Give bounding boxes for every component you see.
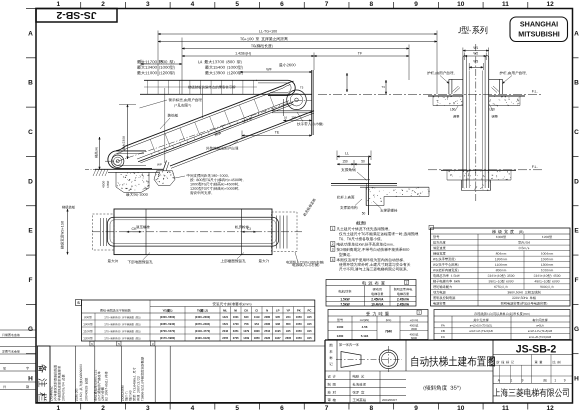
svg-text:1: 1 bbox=[511, 379, 513, 383]
svg-text:8: 8 bbox=[369, 1, 373, 8]
svg-text:915: 915 bbox=[307, 336, 312, 340]
svg-text:7840: 7840 bbox=[385, 330, 392, 334]
svg-text:LP: LP bbox=[276, 308, 280, 312]
svg-text:2.45kVA: 2.45kVA bbox=[397, 298, 410, 302]
pit depth tiny dims bbox=[102, 181, 104, 188]
svg-text:(2400~2300): (2400~2300) bbox=[195, 315, 210, 319]
svg-text:FB: FB bbox=[441, 329, 445, 333]
svg-text:5: 5 bbox=[235, 405, 239, 411]
guard label right bbox=[499, 71, 502, 75]
plan width dim bbox=[67, 209, 69, 255]
svg-text:11: 11 bbox=[502, 405, 509, 411]
svg-text:(2170~5980): (2170~5980) bbox=[160, 336, 175, 340]
upper deck band top line bbox=[144, 79, 257, 81]
svg-text:SHANGHAI: SHANGHAI bbox=[520, 20, 558, 29]
notes strip top border bbox=[36, 345, 325, 347]
xsec rail top caps bbox=[463, 56, 467, 58]
upper slab left bbox=[428, 95, 463, 97]
svg-text:(2420~6120): (2420~6120) bbox=[195, 336, 210, 340]
dim line LL-TG+100 bbox=[158, 33, 437, 35]
svg-text:4: 4 bbox=[191, 1, 195, 8]
lower foundation concrete bbox=[116, 172, 149, 192]
beam concrete section bbox=[360, 186, 429, 188]
upper newel wheel bbox=[287, 90, 307, 110]
revision strip 2 text bbox=[75, 389, 78, 401]
svg-text:ML: ML bbox=[223, 308, 227, 312]
svg-text:12: 12 bbox=[547, 1, 555, 8]
notes line 6 bbox=[339, 253, 342, 256]
upper handrail loop bbox=[256, 80, 295, 95]
svg-text:1050: 1050 bbox=[296, 315, 302, 319]
notes line 2 bbox=[339, 232, 343, 235]
rail surface label bbox=[337, 196, 340, 199]
svg-text:a=LP-1-P+(T3+5)/LB: a=LP-1-P+(T3+5)/LB bbox=[528, 329, 552, 333]
beam vertical bbox=[368, 157, 370, 215]
hoisting length table bbox=[434, 310, 570, 340]
svg-text:C: C bbox=[28, 129, 33, 136]
plan right dashed opening bbox=[272, 212, 298, 252]
projection symbol trapezoid bbox=[341, 352, 361, 368]
projection line lower working point bbox=[164, 88, 166, 163]
svg-text:WP: WP bbox=[157, 163, 162, 167]
dim line 1.428xH bbox=[182, 55, 314, 57]
svg-text:(2418~4770): (2418~4770) bbox=[195, 329, 210, 333]
dim witness line x182 bbox=[181, 38, 183, 95]
svg-text:1279: 1279 bbox=[243, 329, 249, 333]
svg-text:2280: 2280 bbox=[264, 315, 270, 319]
step label on incline bbox=[214, 131, 221, 136]
svg-text:H: H bbox=[574, 376, 579, 383]
svg-text:D: D bbox=[574, 178, 579, 185]
svg-text:1947: 1947 bbox=[275, 336, 281, 340]
outer cladding label bbox=[206, 147, 210, 150]
guard braces bbox=[453, 86, 459, 92]
installation dimensions table marker S bbox=[76, 300, 82, 306]
installation dimensions table bbox=[82, 300, 315, 341]
svg-text:9: 9 bbox=[414, 405, 418, 411]
svg-text:1: 1 bbox=[57, 1, 61, 8]
svg-text:2.45kVA: 2.45kVA bbox=[371, 298, 384, 302]
svg-text:H: H bbox=[28, 376, 33, 383]
svg-text:LL: LL bbox=[345, 152, 349, 156]
svg-text:1: 1 bbox=[554, 379, 556, 383]
plan opening edge lines bbox=[145, 209, 147, 255]
lower pit floor bbox=[108, 171, 160, 173]
revision strip 4 text bbox=[121, 386, 123, 401]
svg-text:1050: 1050 bbox=[296, 322, 302, 326]
svg-text:3: 3 bbox=[332, 247, 334, 251]
svg-text:F: F bbox=[29, 277, 33, 284]
revision strip 3 box bbox=[117, 341, 121, 346]
svg-text:4500比: 4500比 bbox=[410, 332, 419, 336]
svg-text:TE: TE bbox=[275, 131, 280, 135]
mid support strut bbox=[163, 161, 167, 171]
svg-text:(2700~5470): (2700~5470) bbox=[160, 329, 175, 333]
notice board label on deck bbox=[188, 86, 191, 89]
notes numbered box 2 bbox=[331, 242, 335, 246]
svg-text:7: 7 bbox=[325, 1, 329, 8]
svg-text:1521: 1521 bbox=[222, 322, 228, 326]
dim witness line x409 bbox=[408, 45, 410, 81]
svg-text:F.L.: F.L. bbox=[532, 89, 538, 93]
revision strip 4 box bbox=[151, 341, 155, 346]
svg-text:(B): (B) bbox=[519, 230, 524, 234]
svg-text:G: G bbox=[574, 326, 579, 333]
svg-text:E: E bbox=[574, 228, 579, 235]
company name bbox=[493, 388, 500, 396]
svg-text:3: 3 bbox=[146, 1, 150, 8]
svg-text:3: 3 bbox=[146, 405, 150, 411]
seal hatch box bbox=[490, 358, 495, 367]
stage mark cells bbox=[497, 361, 500, 364]
lower slab band bbox=[441, 169, 516, 171]
svg-text:2: 2 bbox=[101, 1, 105, 8]
svg-text:10.4kVA: 10.4kVA bbox=[371, 302, 384, 306]
svg-text:2042: 2042 bbox=[222, 329, 228, 333]
svg-text:1119: 1119 bbox=[254, 315, 260, 319]
max rise dim left bbox=[127, 105, 129, 160]
svg-text:PC: PC bbox=[307, 308, 311, 312]
svg-text:PK: PK bbox=[297, 308, 301, 312]
svg-text:C: C bbox=[574, 129, 579, 136]
label min 2600 bbox=[279, 63, 283, 66]
load tonnage table bbox=[328, 310, 428, 340]
upper deck band floor line bbox=[140, 93, 312, 95]
svg-text:B: B bbox=[28, 80, 33, 87]
spec cluster right - max rise values LA bbox=[198, 60, 200, 63]
dim line WF bbox=[240, 71, 312, 73]
support beam structure label bbox=[340, 206, 343, 209]
svg-text:2516: 2516 bbox=[264, 329, 270, 333]
svg-text:6: 6 bbox=[280, 405, 284, 411]
power inlet label bbox=[292, 263, 295, 266]
step ticks on incline bbox=[151, 154, 152, 157]
dim witness line x314 bbox=[313, 53, 315, 71]
truss skirt line inner bbox=[140, 104, 293, 163]
mid support note leader bbox=[175, 176, 185, 178]
svg-text:758: 758 bbox=[244, 322, 249, 326]
svg-text:1700: 1700 bbox=[233, 322, 239, 326]
truss deck line bbox=[137, 101, 289, 159]
svg-text:1850: 1850 bbox=[254, 336, 260, 340]
guard rail top left bbox=[449, 78, 463, 80]
svg-text:m2(kN): m2(kN) bbox=[360, 318, 370, 322]
svg-text:a=LL+B-(T3-5)/2LB: a=LL+B-(T3-5)/2LB bbox=[529, 335, 552, 339]
revision strip 3 text bbox=[94, 370, 97, 401]
projection line mid bbox=[202, 88, 204, 118]
plan top-left tiny label bbox=[62, 206, 65, 209]
rise dim vertical bbox=[99, 137, 101, 169]
svg-text:1469: 1469 bbox=[243, 336, 249, 340]
svg-text:7: 7 bbox=[325, 405, 329, 411]
svg-text:1195: 1195 bbox=[275, 329, 281, 333]
support angle label bbox=[341, 168, 344, 171]
beam angle steel line bbox=[348, 179, 370, 181]
truss skirt line outer bbox=[138, 102, 293, 161]
mid support note text bbox=[187, 174, 190, 177]
svg-text:915: 915 bbox=[307, 315, 312, 319]
notes numbered box 3 bbox=[331, 247, 335, 251]
svg-text:L60: L60 bbox=[450, 107, 456, 111]
beam dim LL bbox=[336, 151, 338, 161]
svg-text:a=L2+5.0-(T3-5)/2L: a=L2+5.0-(T3-5)/2L bbox=[470, 323, 493, 327]
svg-text:A: A bbox=[28, 30, 33, 37]
svg-text:908: 908 bbox=[275, 322, 280, 326]
svg-text:E: E bbox=[28, 228, 33, 235]
svg-text:2: 2 bbox=[332, 242, 334, 246]
balustrade panel joints on incline bbox=[150, 139, 155, 152]
series label J-series bbox=[458, 27, 460, 33]
lower handrail loop bbox=[108, 151, 152, 169]
svg-text:4: 4 bbox=[191, 405, 195, 411]
deck band dividers bbox=[147, 80, 149, 94]
specification table bbox=[431, 228, 571, 306]
svg-text:S: S bbox=[77, 301, 80, 305]
drawing number box JS-SB-2 rotated bbox=[36, 9, 117, 23]
svg-text:6: 6 bbox=[280, 1, 284, 8]
svg-text:JS-SB-2: JS-SB-2 bbox=[56, 9, 96, 21]
beam slab lines bbox=[331, 182, 397, 184]
main title text bbox=[411, 356, 418, 366]
guard post right bbox=[499, 79, 501, 94]
upper F.L. line bbox=[318, 93, 542, 95]
svg-text:4500: 4500 bbox=[411, 327, 417, 331]
decor panel label bbox=[168, 114, 171, 117]
svg-text:TI(图1,2): TI(图1,2) bbox=[197, 308, 208, 312]
guard post left bbox=[448, 79, 450, 94]
title cell bbox=[406, 370, 493, 372]
power supply table bbox=[326, 280, 416, 307]
svg-text:a=5LA: a=5LA bbox=[536, 323, 544, 327]
notes line 4 bbox=[337, 243, 340, 246]
svg-text:3351: 3351 bbox=[233, 329, 239, 333]
svg-text:1.428x(H): 1.428x(H) bbox=[235, 51, 251, 55]
svg-text:F: F bbox=[575, 277, 579, 284]
svg-text:NI: NI bbox=[234, 308, 237, 312]
notes line 8 bbox=[339, 263, 343, 266]
step chain line bbox=[105, 160, 118, 162]
upper loop support vertical bbox=[282, 99, 284, 116]
notes line 3 bbox=[339, 238, 341, 241]
guard rail top right bbox=[489, 78, 503, 80]
svg-text:CK: CK bbox=[244, 308, 248, 312]
svg-text:945: 945 bbox=[286, 329, 291, 333]
plan dim CK bbox=[127, 231, 142, 233]
notes line 7 bbox=[337, 258, 341, 261]
svg-text:8: 8 bbox=[369, 405, 373, 411]
subtitle incline angle bbox=[424, 386, 425, 391]
upper pit floor lines bbox=[272, 110, 312, 112]
truss bottom chord outer bbox=[170, 111, 314, 166]
svg-text:9: 9 bbox=[522, 379, 524, 383]
svg-text:50: 50 bbox=[362, 212, 366, 216]
dim witness line x437 bbox=[436, 31, 438, 95]
notes strip bottom border bbox=[36, 401, 325, 403]
svg-text:840: 840 bbox=[244, 315, 249, 319]
plan label cover bbox=[235, 225, 238, 228]
svg-text:954: 954 bbox=[254, 322, 259, 326]
svg-text:MITSUBISHI: MITSUBISHI bbox=[518, 30, 560, 39]
left margin revision rows bbox=[0, 329, 36, 331]
truss bottom chord inner bbox=[171, 113, 314, 168]
svg-text:4500比: 4500比 bbox=[410, 324, 419, 328]
projection symbol circles bbox=[379, 350, 398, 369]
remark column box bbox=[38, 346, 51, 402]
dim witness line x158 bbox=[157, 31, 159, 77]
svg-text:2605: 2605 bbox=[285, 336, 291, 340]
svg-text:1001: 1001 bbox=[233, 315, 239, 319]
svg-text:(2370~2484): (2370~2484) bbox=[195, 322, 210, 326]
beam dims 150/50 bbox=[353, 160, 355, 168]
plan label bolt bbox=[136, 225, 139, 228]
notes numbered box 4 bbox=[331, 257, 335, 261]
svg-text:A: A bbox=[574, 30, 579, 37]
svg-text:4: 4 bbox=[332, 258, 334, 262]
xsec dim W2 bbox=[464, 53, 466, 61]
svg-text:2: 2 bbox=[101, 405, 105, 411]
svg-text:4.56: 4.56 bbox=[362, 325, 368, 329]
xsec balustrade rails bbox=[462, 58, 464, 189]
svg-text:905: 905 bbox=[275, 315, 280, 319]
svg-text:10: 10 bbox=[457, 1, 465, 8]
upper slab right bbox=[489, 95, 525, 97]
SHANGHAI MITSUBISHI logo box bbox=[510, 17, 568, 42]
svg-text:2705: 2705 bbox=[233, 336, 239, 340]
lower floor line bbox=[95, 168, 163, 170]
svg-text:1000: 1000 bbox=[337, 325, 344, 329]
svg-text:1: 1 bbox=[57, 405, 61, 411]
lower newel wheel bbox=[112, 155, 124, 167]
xsec centerline bbox=[475, 44, 477, 201]
dim line TK bbox=[140, 60, 142, 67]
svg-text:JS-SB-2: JS-SB-2 bbox=[516, 344, 557, 356]
guard label left bbox=[427, 71, 430, 75]
truss handrail outer line bbox=[116, 81, 294, 151]
svg-text:1820: 1820 bbox=[254, 329, 260, 333]
notes numbered box 1 bbox=[331, 226, 335, 230]
plan top-right cover label bbox=[303, 198, 317, 217]
svg-text:(kG): (kG) bbox=[386, 318, 392, 322]
svg-text:1050: 1050 bbox=[296, 329, 302, 333]
dim line TG length bbox=[182, 48, 409, 50]
pit left wall hatch bbox=[93, 169, 96, 176]
floor edge small dim T3 bbox=[385, 80, 387, 94]
xsec inner panel lines bbox=[468, 71, 470, 189]
svg-text:YE(图1): YE(图1) bbox=[163, 308, 173, 312]
svg-text:7.5kW: 7.5kW bbox=[340, 302, 349, 306]
svg-text:915: 915 bbox=[307, 322, 312, 326]
svg-text:2.45kVA: 2.45kVA bbox=[397, 302, 410, 306]
max load label lower bbox=[126, 193, 129, 196]
handrail entry label upper bbox=[297, 122, 300, 125]
xsec dim W1 bbox=[462, 48, 464, 58]
dim line TG+100 support beam distance bbox=[158, 41, 437, 43]
projection cell divider bbox=[405, 340, 407, 371]
svg-text:5: 5 bbox=[235, 1, 239, 8]
plan left dashed opening bbox=[93, 214, 115, 250]
xsec dim W3 bbox=[468, 63, 470, 70]
title block signature rows bbox=[325, 379, 406, 381]
plan left comb bbox=[100, 218, 102, 246]
svg-text:11: 11 bbox=[502, 1, 509, 8]
notes line 5 bbox=[337, 248, 341, 252]
dim TE bbox=[242, 135, 312, 137]
svg-text:CK: CK bbox=[132, 227, 138, 231]
svg-text:B: B bbox=[574, 80, 579, 87]
vertical dim right of upper landing bbox=[346, 73, 348, 92]
svg-text:N: N bbox=[266, 308, 268, 312]
title block outline bbox=[324, 340, 326, 403]
svg-text:2026: 2026 bbox=[264, 336, 270, 340]
svg-text:CI: CI bbox=[247, 227, 251, 231]
svg-text:1050: 1050 bbox=[296, 336, 302, 340]
svg-text:9: 9 bbox=[414, 1, 418, 8]
svg-text:a=LP-1-P-(T3+5)/LB: a=LP-1-P-(T3+5)/LB bbox=[469, 329, 493, 333]
svg-text:5.194: 5.194 bbox=[361, 334, 369, 338]
plan right comb bbox=[276, 216, 278, 249]
svg-text:(2365~5940): (2365~5940) bbox=[160, 322, 175, 326]
spec cluster left - max rise values bbox=[137, 60, 141, 64]
svg-text:16: 16 bbox=[284, 115, 288, 119]
notes strip cell dividers bbox=[49, 346, 51, 402]
svg-text:9: 9 bbox=[564, 379, 566, 383]
svg-text:224: 224 bbox=[286, 315, 291, 319]
svg-text:1300: 1300 bbox=[337, 334, 344, 338]
svg-text:D: D bbox=[28, 178, 33, 185]
svg-text:(2300~5600): (2300~5600) bbox=[160, 315, 175, 319]
svg-text:12: 12 bbox=[547, 405, 555, 411]
svg-text:2486: 2486 bbox=[264, 322, 270, 326]
svg-text:F.L.: F.L. bbox=[532, 165, 538, 169]
dim line TF bbox=[314, 55, 409, 57]
truss handrail inner line bbox=[117, 85, 290, 154]
drawing number column bbox=[492, 340, 494, 403]
plan centerline bbox=[92, 231, 302, 233]
plan dim CI bbox=[242, 231, 256, 233]
beam bolt label bbox=[380, 209, 383, 212]
upper machine pit wall bbox=[311, 70, 313, 135]
svg-text:915: 915 bbox=[307, 329, 312, 333]
svg-text:WF: WF bbox=[266, 67, 272, 71]
svg-text:150: 150 bbox=[342, 159, 348, 163]
svg-text:T3: T3 bbox=[382, 85, 386, 89]
svg-text:1: 1 bbox=[332, 227, 334, 231]
projection symbol centerline bbox=[336, 358, 402, 360]
svg-text:CI: CI bbox=[255, 308, 258, 312]
svg-text:50: 50 bbox=[361, 159, 365, 163]
plan handrail belt outer bbox=[108, 217, 279, 246]
svg-text:1.5kW: 1.5kW bbox=[340, 298, 349, 302]
plan handrail belt inner bbox=[110, 220, 276, 244]
lower F.L. line bbox=[428, 169, 542, 171]
plan below labels bbox=[108, 259, 111, 262]
svg-text:850: 850 bbox=[286, 322, 291, 326]
notes line 1 bbox=[337, 227, 340, 230]
revision strip 1 text bbox=[50, 386, 52, 401]
section I label bbox=[356, 221, 360, 225]
upper deck band mid line bbox=[144, 86, 257, 88]
svg-text:6000: 6000 bbox=[411, 336, 417, 340]
plan outer rect bbox=[114, 209, 272, 255]
svg-text:2455: 2455 bbox=[222, 336, 228, 340]
warning sign label bbox=[169, 98, 172, 101]
svg-text:+(mm): +(mm) bbox=[410, 318, 418, 322]
mid support footing bbox=[154, 171, 175, 186]
svg-text:LL-TG+100: LL-TG+100 bbox=[259, 29, 277, 33]
svg-text:10: 10 bbox=[457, 405, 465, 411]
revision strip 2 box bbox=[90, 341, 94, 346]
first sheet label bbox=[339, 343, 342, 346]
